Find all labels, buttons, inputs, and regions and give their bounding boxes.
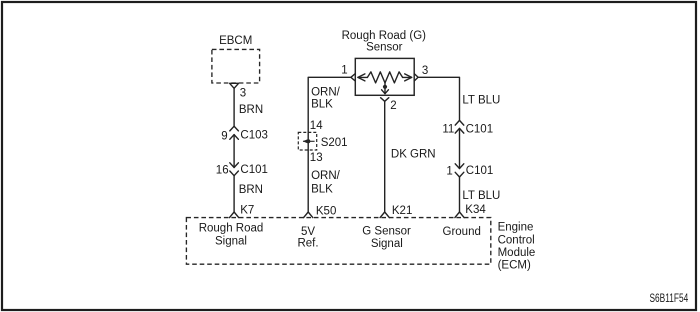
svg-text:Module: Module (498, 247, 536, 259)
pin 3 of sensor (414, 65, 428, 81)
wire between C101 connectors (459, 128, 461, 168)
module ECM box (186, 218, 490, 265)
pin 1 of sensor (341, 65, 355, 81)
svg-text:13: 13 (310, 152, 323, 164)
svg-text:11: 11 (442, 124, 454, 136)
svg-text:S201: S201 (321, 137, 348, 149)
svg-text:(ECM): (ECM) (498, 260, 531, 272)
pin 2 of sensor (381, 98, 397, 112)
svg-text:Ref.: Ref. (297, 237, 318, 249)
module EBCM (212, 35, 260, 83)
svg-text:Sensor: Sensor (366, 41, 403, 53)
svg-text:EBCM: EBCM (219, 35, 252, 47)
svg-text:C103: C103 (240, 130, 268, 142)
svg-text:Ground: Ground (443, 226, 481, 238)
svg-text:BRN: BRN (239, 184, 263, 196)
svg-text:G Sensor: G Sensor (362, 226, 411, 238)
terminal K21 (380, 205, 412, 218)
svg-text:C101: C101 (466, 124, 494, 136)
connector C101 pin 11 (442, 120, 493, 135)
svg-text:1: 1 (446, 166, 452, 178)
sensor U1 body (355, 58, 414, 95)
wire LT BLU from sensor pin 3 to C101 (418, 77, 459, 120)
label Rough Road (G) Sensor (342, 30, 427, 53)
svg-text:C101: C101 (240, 164, 268, 176)
terminal K50 (304, 206, 337, 218)
wire DK GRN from sensor pin 2 to ECM terminal K21 (384, 101, 386, 212)
label 5V Ref. (297, 226, 318, 250)
connector C101 pin 16 (216, 163, 268, 177)
svg-text:Signal: Signal (371, 238, 403, 250)
svg-text:Engine: Engine (498, 222, 534, 234)
svg-text:BLK: BLK (311, 184, 333, 196)
svg-text:K50: K50 (316, 206, 336, 218)
svg-text:S6B11F54: S6B11F54 (650, 293, 689, 305)
svg-text:Rough Road: Rough Road (199, 222, 264, 234)
label ORN/BLK (311, 170, 341, 195)
svg-text:16: 16 (216, 164, 229, 176)
wire LT BLU from C101 to ECM terminal K34 (459, 177, 461, 212)
connector C101 pin 1 (446, 164, 493, 178)
label Rough Road Signal (199, 222, 264, 247)
wire BRN from EBCM pin 3 to C103 (233, 88, 235, 126)
svg-text:1: 1 (341, 65, 347, 77)
svg-text:14: 14 (310, 120, 323, 132)
svg-text:5V: 5V (301, 226, 315, 238)
label ORN/BLK (311, 86, 341, 110)
svg-text:K21: K21 (392, 205, 412, 217)
svg-text:Rough Road (G): Rough Road (G) (342, 30, 427, 42)
splice S201 (298, 132, 347, 150)
svg-text:LT BLU: LT BLU (462, 95, 500, 107)
wire ORN/BLK from sensor pin 1 to ECM terminal K50 (308, 77, 351, 212)
label G Sensor Signal (362, 226, 411, 251)
resistor (potentiometer element with double arrow) (358, 72, 412, 83)
svg-text:9: 9 (221, 130, 227, 142)
terminal K34 (455, 204, 486, 217)
svg-text:ORN/: ORN/ (311, 86, 341, 98)
svg-text:BRN: BRN (239, 104, 263, 116)
svg-text:3: 3 (422, 65, 428, 77)
svg-text:2: 2 (390, 100, 396, 112)
terminal K7 (230, 205, 255, 218)
svg-text:3: 3 (240, 87, 246, 99)
pin 3 of EBCM (230, 83, 247, 99)
svg-text:K34: K34 (465, 204, 486, 216)
svg-text:ORN/: ORN/ (311, 170, 341, 182)
svg-text:LT BLU: LT BLU (462, 190, 500, 202)
label Engine Control Module (ECM) (498, 222, 536, 272)
svg-text:C101: C101 (466, 165, 494, 177)
svg-text:K7: K7 (240, 205, 254, 217)
svg-text:Control: Control (498, 234, 535, 246)
wire BRN from C101 to ECM terminal K7 (233, 176, 235, 212)
svg-text:DK GRN: DK GRN (391, 149, 436, 161)
svg-text:BLK: BLK (311, 98, 333, 110)
wiper arrow of potentiometer (382, 83, 389, 94)
svg-text:Signal: Signal (215, 236, 247, 248)
connector C103 pin 9 (221, 126, 268, 142)
wire between C103 and C101 (233, 135, 235, 168)
